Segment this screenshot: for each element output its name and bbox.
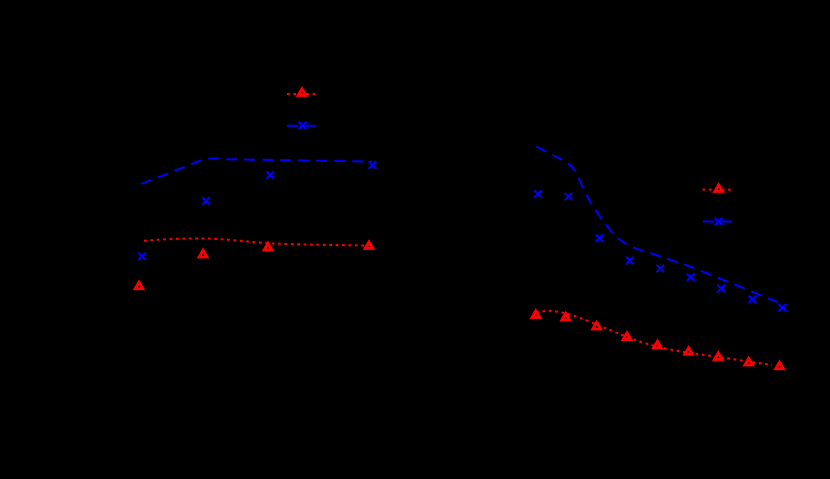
right blue dashed fit curve — [537, 147, 781, 304]
right red triangle data points — [532, 311, 540, 318]
left blue X data points — [138, 253, 146, 260]
left blue dashed fit curve — [141, 159, 372, 185]
right legend blue dashed sample — [703, 221, 734, 223]
right legend blue X — [715, 218, 723, 225]
left legend blue X — [299, 122, 307, 129]
right blue X data points — [534, 190, 542, 197]
right legend red dotted sample — [703, 189, 732, 191]
left red triangle data points — [135, 282, 143, 289]
left legend red triangle — [298, 89, 306, 96]
left red dotted fit curve — [144, 238, 369, 245]
left legend blue dashed sample — [287, 125, 318, 127]
left legend red dotted sample — [287, 93, 317, 95]
right legend red triangle — [715, 185, 723, 192]
right red dotted fit curve — [536, 311, 772, 365]
